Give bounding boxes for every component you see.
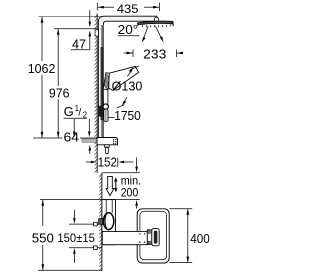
shelf behind wall (gray) (82, 139, 97, 142)
shelf (97, 138, 118, 145)
svg-text:550: 550 (32, 231, 54, 246)
wall bracket nub (95, 30, 98, 36)
extension line (976 ref) (54, 28, 97, 30)
dimension 150 plus-minus 15 (57, 210, 102, 263)
wall upper (hatched) (95, 14, 98, 173)
wall lower (hatched) (99, 173, 102, 271)
svg-text:Ø130: Ø130 (112, 79, 143, 94)
hand shower pivot (103, 104, 108, 109)
dimension 47 (71, 10, 91, 51)
baseline (64 ref) (33, 137, 97, 139)
svg-text:152: 152 (98, 155, 117, 170)
label min. 200 (121, 176, 141, 200)
spout arm (102, 231, 147, 244)
dimension diameter 130 (112, 66, 143, 108)
svg-text:/: / (78, 106, 81, 118)
mixer knob (99, 213, 114, 230)
min.200 upper arrow (135, 158, 138, 173)
dimension 976 (49, 29, 70, 138)
ball joint (154, 17, 158, 22)
label 20 degrees (118, 22, 140, 37)
min.200 top reference line (103, 172, 140, 174)
mixer body box (102, 200, 116, 245)
label 1750 (hose length) (108, 108, 141, 123)
dimension 400 (170, 209, 210, 263)
spray cone (142, 26, 164, 43)
svg-text:1750: 1750 (114, 108, 141, 123)
label G 1/2 (64, 104, 91, 137)
hose outlet nipple (105, 145, 110, 154)
svg-text:233: 233 (143, 46, 166, 61)
svg-text:47: 47 (72, 36, 86, 51)
hand shower head (109, 66, 139, 90)
hose connector capsule (104, 109, 108, 122)
shower rail pipe with top elbow arm (98, 16, 157, 137)
hand shower holder block (147, 229, 159, 246)
svg-text:976: 976 (49, 85, 70, 100)
dimension 435 (97, 2, 159, 16)
bathtub (side view) (137, 209, 169, 263)
extension line top (1062 ref) (39, 16, 104, 18)
min.200 lower arrow (135, 200, 138, 209)
dimension 64 (64, 129, 92, 153)
svg-text:1062: 1062 (28, 61, 56, 76)
flow direction hollow arrow (106, 176, 114, 195)
adjustability up-down arrows (114, 177, 117, 192)
svg-text:200: 200 (121, 186, 139, 200)
hand shower handle (103, 73, 110, 105)
svg-text:64: 64 (64, 129, 80, 144)
dimension 550 (32, 200, 102, 271)
hand shower holder grip (99, 106, 104, 117)
min.200 bottom reference line (40, 199, 140, 201)
dimension 233 (124, 46, 183, 61)
svg-text:400: 400 (190, 231, 210, 246)
svg-text:435: 435 (117, 2, 139, 16)
svg-text:150±15: 150±15 (57, 231, 95, 245)
dimension 1062 (28, 17, 56, 138)
head shower plate (138, 21, 174, 27)
svg-text:G: G (64, 104, 74, 119)
dimension 152 (86, 155, 134, 170)
svg-text:20°: 20° (118, 22, 139, 37)
